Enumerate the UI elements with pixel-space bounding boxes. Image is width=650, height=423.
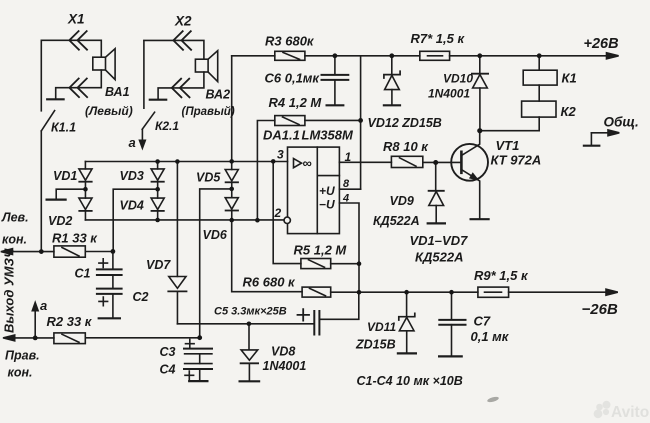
svg-text:R7* 1,5 к: R7* 1,5 к	[411, 31, 466, 46]
wire VD5/VD6 mid to R2 node	[200, 189, 232, 338]
svg-text:Выход УМЗЧ: Выход УМЗЧ	[2, 248, 17, 333]
wire collector node to K2	[480, 117, 540, 131]
ground (VD12)	[384, 104, 400, 106]
capacitor C7	[439, 292, 465, 356]
resistor R3	[275, 51, 305, 60]
svg-text:VD10: VD10	[443, 72, 473, 86]
capacitor C1	[97, 251, 122, 288]
svg-text:LM358M: LM358M	[302, 128, 354, 143]
wire +26V rail left of R3	[232, 55, 275, 57]
junction VD3-VD4 midpoint	[155, 187, 160, 192]
svg-text:(Правый): (Правый)	[182, 106, 235, 118]
wire pin 8 stub	[340, 188, 361, 190]
svg-text:R5 1,2 М: R5 1,2 М	[294, 243, 348, 258]
wire R4 right lead	[305, 119, 361, 121]
junction VD7 top on pin3 rail	[175, 159, 180, 164]
ground (X1 lower)	[47, 98, 63, 100]
svg-text:VD9: VD9	[390, 194, 414, 208]
wire BA1 bottom to lower connector X1	[56, 70, 102, 99]
wire R5 left to pin3 rail	[273, 161, 301, 263]
ground (VT1 emitter)	[471, 218, 489, 220]
junction VD5-VD6 midpoint	[229, 187, 234, 192]
wire pin 4 vertical	[339, 203, 359, 292]
diode VD1	[79, 162, 92, 199]
diode VD2	[79, 198, 92, 220]
wire +26V rail middle	[305, 55, 420, 57]
svg-text:кон.: кон.	[2, 233, 27, 247]
svg-text:VD6: VD6	[203, 228, 228, 242]
svg-text:С3: С3	[160, 345, 176, 359]
wire R1 to C1 node	[85, 251, 113, 253]
svg-text:DA1.1: DA1.1	[263, 128, 300, 143]
pin 2 inversion circle	[284, 217, 290, 223]
ground (C2)	[99, 317, 120, 319]
wire R5 right lead	[331, 263, 359, 265]
svg-text:К2: К2	[561, 104, 577, 119]
contact K2.1	[142, 112, 154, 129]
junction VD8 on VD7-C5 wire	[247, 322, 252, 327]
ground (VD8)	[240, 380, 260, 382]
wire K1 to K2	[538, 85, 540, 101]
svg-text:−U: −U	[319, 198, 335, 212]
relay coil K1	[523, 70, 557, 85]
wire left rail to K1.1	[40, 40, 42, 111]
svg-text:С2: С2	[133, 290, 149, 304]
wire +26V rail right with arrow	[450, 53, 619, 59]
svg-text:а: а	[40, 298, 47, 313]
svg-text:К1.1: К1.1	[51, 121, 76, 135]
svg-text:ВА2: ВА2	[206, 88, 231, 102]
ground (C6)	[327, 104, 344, 106]
junction node a arrow / R2 input	[33, 336, 38, 341]
svg-text:−26В: −26В	[582, 301, 618, 318]
junction R4 right / +U line	[358, 118, 363, 123]
svg-text:1N4001: 1N4001	[263, 359, 307, 373]
svg-text:R4 1,2 М: R4 1,2 М	[269, 95, 323, 110]
resistor R1	[54, 246, 85, 257]
wire VD7 bottom to C5	[177, 323, 314, 325]
svg-text:1: 1	[345, 150, 352, 164]
speaker BA2	[195, 51, 217, 82]
capacitor C4	[184, 364, 212, 381]
junction VT1 collector / K2 / VD10	[477, 128, 482, 133]
svg-text:+U: +U	[319, 184, 335, 198]
relay coil K2	[522, 101, 556, 117]
speaker BA1	[93, 49, 115, 80]
wire -26V rail left	[331, 291, 478, 293]
junction VD1-VD2 midpoint	[83, 187, 88, 192]
svg-text:С4: С4	[160, 363, 176, 377]
connector X2	[144, 31, 204, 59]
wire R4 left drop to pin2 rail	[257, 121, 274, 221]
svg-text:К1: К1	[562, 71, 577, 86]
ground (C7)	[439, 355, 462, 357]
junction VD10 top on +26V rail	[477, 53, 482, 58]
svg-text:4: 4	[342, 193, 349, 205]
junction left rail / R1 input	[39, 249, 44, 254]
svg-text:3: 3	[277, 148, 284, 162]
diode VD3	[151, 162, 164, 199]
wire +U vertical (rail to pin 8)	[360, 56, 362, 189]
resistor R9	[478, 287, 509, 297]
svg-text:R2 33 к: R2 33 к	[47, 314, 93, 329]
junction K1 top on +26V rail	[537, 53, 542, 58]
wire R8 to VT1 base	[423, 161, 462, 163]
svg-text:R6 680 к: R6 680 к	[243, 275, 297, 290]
svg-text:VD5: VD5	[196, 171, 221, 185]
svg-text:VD7: VD7	[146, 258, 171, 272]
junction R2 / C3 / VD5-VD6 branch	[197, 335, 202, 340]
svg-text:С6 0,1мк: С6 0,1мк	[265, 71, 321, 86]
svg-text:(Левый): (Левый)	[85, 104, 133, 118]
wire BA2 bottom to lower connector X2	[158, 72, 204, 99]
svg-text:VT1: VT1	[496, 138, 520, 153]
svg-text:X2: X2	[174, 14, 192, 29]
svg-text:КТ 972А: КТ 972А	[491, 153, 542, 168]
svg-text:R8 10 к: R8 10 к	[383, 139, 429, 154]
node rail (pin 2)	[85, 219, 284, 221]
resistor R8	[391, 156, 422, 167]
diode VD4	[151, 198, 164, 220]
diode VD5	[225, 161, 238, 197]
junction C7 on -26V rail	[449, 290, 454, 295]
terminal Common (Obshchiy)	[584, 130, 619, 146]
capacitor C3	[184, 339, 212, 363]
input arrow (right channel)	[3, 335, 54, 341]
ground (VD1/VD2 mid)	[47, 189, 86, 199]
capacitor C6	[322, 56, 349, 105]
node a arrow (up, near R2)	[32, 303, 38, 338]
wire pin 1 to R8	[339, 161, 391, 163]
svg-text:К2.1: К2.1	[155, 119, 179, 133]
input arrow (left channel)	[1, 249, 54, 255]
svg-text:∞: ∞	[303, 156, 312, 171]
wire K1 top lead	[538, 56, 540, 70]
svg-text:VD1: VD1	[53, 169, 77, 183]
wire VD3/VD4 mid to R1 node	[113, 189, 157, 251]
junction VD11 on -26V rail	[404, 290, 409, 295]
wire rail to K2.1	[143, 41, 145, 109]
svg-text:Прав.: Прав.	[5, 349, 40, 363]
capacitor C5	[298, 292, 359, 334]
connector X1	[41, 31, 101, 57]
resistor R7	[420, 51, 450, 60]
resistor R6	[302, 287, 331, 297]
svg-text:8: 8	[343, 178, 350, 190]
svg-text:Лев.: Лев.	[1, 211, 29, 225]
svg-text:VD2: VD2	[48, 214, 72, 228]
svg-text:R9* 1,5 к: R9* 1,5 к	[474, 268, 529, 283]
svg-text:КД522А: КД522А	[415, 250, 463, 265]
svg-text:1N4001: 1N4001	[428, 87, 470, 101]
ground (VD9)	[428, 222, 445, 224]
diode VD8	[241, 324, 259, 381]
svg-text:кон.: кон.	[8, 366, 33, 380]
svg-text:VD3: VD3	[120, 169, 144, 183]
resistor R2	[54, 333, 85, 344]
wire VD6 column down to R6	[232, 220, 302, 292]
wire R2 to C3 node	[85, 337, 199, 339]
svg-text:R3 680к: R3 680к	[265, 34, 315, 49]
junction VD5 top on pin3 rail	[229, 159, 234, 164]
diode VD10	[472, 56, 488, 131]
svg-text:R1 33 к: R1 33 к	[52, 231, 98, 246]
contact K1.1	[41, 111, 54, 131]
svg-text:+26В: +26В	[584, 36, 619, 52]
node rail (pin 3)	[85, 161, 287, 163]
svg-text:а: а	[129, 135, 136, 150]
svg-text:ВА1: ВА1	[105, 85, 130, 99]
svg-text:С7: С7	[474, 314, 491, 329]
diode VD7	[168, 162, 186, 324]
svg-text:КД522А: КД522А	[373, 214, 420, 228]
capacitor C2	[97, 289, 122, 318]
svg-text:Общ.: Общ.	[604, 115, 639, 130]
wire -26V rail right with arrow	[509, 289, 618, 295]
svg-text:VD12 ZD15B: VD12 ZD15B	[368, 116, 442, 130]
svg-text:VD1–VD7: VD1–VD7	[410, 233, 469, 248]
wire K1.1 to R1 node	[40, 131, 42, 252]
svg-text:С5 3.3мк×25В: С5 3.3мк×25В	[214, 306, 287, 318]
svg-text:X1: X1	[67, 12, 85, 27]
wire R3 left drop to node rail	[231, 56, 233, 162]
svg-text:VD4: VD4	[120, 199, 144, 213]
node a arrow (down, below K2.1)	[140, 129, 146, 148]
diode VD6	[225, 198, 238, 220]
junction R5 right / pin4 line	[357, 261, 362, 266]
transistor VT1	[451, 131, 488, 219]
ground (C4)	[189, 380, 207, 382]
ground (X2 lower)	[150, 99, 166, 101]
junction VD12 top on +26V rail	[389, 53, 394, 58]
svg-text:С1: С1	[75, 267, 91, 281]
junction VD6 bottom on pin2 rail	[229, 218, 234, 223]
zener VD11	[399, 292, 415, 353]
diode VD9	[429, 163, 444, 223]
svg-text:ZD15B: ZD15B	[355, 338, 396, 352]
svg-text:С1-С4 10 мк ×10В: С1-С4 10 мк ×10В	[357, 374, 463, 388]
ground (VD11)	[398, 352, 416, 354]
junction pin4 line / C5 on -26V rail	[357, 290, 362, 295]
junction R1 / C1 / VD3-VD4 branch	[111, 249, 116, 254]
svg-text:0,1 мк: 0,1 мк	[471, 329, 510, 344]
resistor R4	[275, 116, 305, 126]
svg-text:VD8: VD8	[271, 345, 295, 359]
junction VD3 top on pin3 rail	[155, 159, 160, 164]
junction R4 drop on pin2 rail	[255, 218, 260, 223]
watermark avito	[487, 396, 650, 421]
svg-text:Avito: Avito	[611, 404, 649, 421]
op-amp DA1.1	[288, 147, 340, 234]
junction R5 branch on pin3 rail	[271, 159, 276, 164]
zener VD12	[384, 56, 400, 105]
svg-text:VD11: VD11	[367, 320, 396, 334]
resistor R5	[301, 259, 331, 269]
junction VD4 bottom on pin2 rail	[155, 218, 160, 223]
junction C6 top on +26V rail	[333, 53, 338, 58]
svg-text:2: 2	[274, 206, 282, 220]
junction VD9 / VT1 base	[433, 160, 438, 165]
